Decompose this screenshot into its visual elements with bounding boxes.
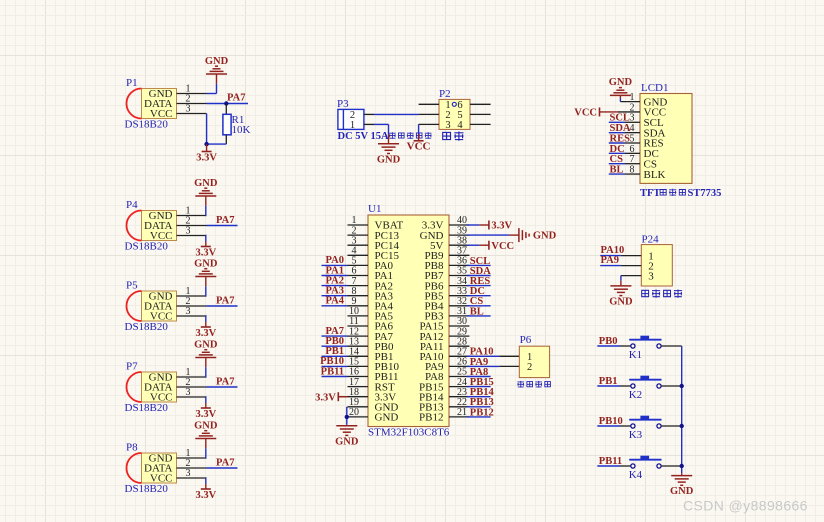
svg-text:K4: K4 [629,469,643,481]
wire+net label PB12 (U1 pin 21) [467,407,494,418]
wire+net label SCL (U1 pin 36) [467,256,491,267]
svg-text:10K: 10K [232,124,251,136]
pushbutton K1 net PB0 [597,336,681,361]
svg-text:GND: GND [609,297,633,308]
svg-text:P24: P24 [642,234,660,246]
wire+net label PB10 (U1 pin 15) [320,356,347,367]
svg-text:VCC: VCC [574,108,597,119]
svg-text:K3: K3 [629,429,643,441]
svg-text:GND: GND [194,258,218,269]
wire P3 pin2 to P2 pin2 [364,113,419,115]
svg-text:K2: K2 [629,389,642,401]
wire net PA9 (P24 pin 2) [600,255,641,266]
wire net PA10 U1 pin 27 to P6 [467,347,520,358]
svg-text:VCC: VCC [407,141,431,153]
svg-text:BL: BL [470,306,484,317]
pushbutton K4 net PB11 [597,456,681,481]
wire+net label SDA (U1 pin 35) [467,266,491,277]
power VCC (P2 pin 3) [407,124,431,152]
IC U1 STM32F103C8T6 [348,203,470,438]
ground GND (P7 pin 1) [194,339,218,377]
svg-text:PA7: PA7 [216,457,234,468]
svg-text:DS18B20: DS18B20 [125,321,169,333]
svg-text:P2: P2 [439,88,451,100]
svg-text:3: 3 [186,468,191,479]
svg-text:GND: GND [609,77,633,88]
svg-text:SCL: SCL [610,113,630,124]
junction PA7/R1 [224,101,228,105]
wire VCC pin3 to 3.3V node (P1) [207,114,227,145]
wire DATA net PA7 (P4) [207,225,238,227]
wire+net label RES (U1 pin 34) [467,276,491,287]
svg-text:3.3V: 3.3V [195,328,216,339]
wire net PA9 U1 pin 26 to P6 [467,357,520,368]
ground GND (button bus) [681,471,683,473]
svg-text:U1: U1 [368,203,381,215]
power 3.3V (P5 pin 3) [195,316,216,339]
svg-text:PB12: PB12 [419,412,443,424]
ground GND (P3 pin 1) [388,124,390,134]
wire+net label SDA (LCD1 pin 4) [609,123,640,134]
power 3.3V (U1 pin 18) [315,392,347,403]
svg-text:3.3V: 3.3V [491,221,512,232]
ground GND (U1 pin 39) [467,228,557,242]
wire+net label BL (U1 pin 31) [467,306,491,317]
switch P2 (6-pin) [439,88,470,131]
wire+net label RES (LCD1 pin 5) [609,133,640,144]
connector P3 DC power input [337,98,364,131]
svg-text:4: 4 [457,120,463,131]
connector P5 DS18B20 probe [125,280,207,334]
svg-text:3.3V: 3.3V [195,247,216,258]
svg-text:PB10: PB10 [599,416,623,427]
wire+net label PA2 (U1 pin 7) [322,275,348,286]
wire+net label DC (LCD1 pin 6) [609,144,640,155]
wire+net label CS (LCD1 pin 7) [609,154,640,165]
label serial interface (Chinese) [642,290,649,296]
power 3.3V (P4 pin 3) [195,236,216,259]
junction button bus y=466 [680,464,684,468]
svg-text:GND: GND [533,231,557,242]
svg-text:CS: CS [610,154,624,165]
svg-text:PA7: PA7 [216,376,234,387]
connector P1 DS18B20 probe [125,77,207,131]
svg-text:TFT: TFT [640,188,660,199]
svg-text:1: 1 [350,120,355,131]
wire DATA net PA7 (P8) [207,467,238,469]
wire GND pins 19-20 (U1) [346,407,348,424]
svg-text:PB12: PB12 [470,407,494,418]
wire P3 pin1 to ground [364,123,389,125]
wire+net label CS (U1 pin 32) [467,296,491,307]
connector P24 serial interface [641,234,672,287]
pushbutton K2 net PB1 [597,376,681,401]
wire+net label SCL (LCD1 pin 3) [609,113,640,124]
svg-text:P8: P8 [126,442,138,454]
connector P6 serial debug [519,334,549,378]
wire DATA net PA7 (P5) [207,305,238,307]
svg-text:3.3V: 3.3V [195,409,216,420]
svg-text:PA7: PA7 [216,215,234,226]
svg-text:GND: GND [375,412,399,424]
label TFT display ST7735 (Chinese) [640,188,721,199]
label serial debug (Chinese) [517,381,524,388]
svg-text:PB11: PB11 [321,366,344,377]
wire+net label PB11 (U1 pin 16) [321,366,348,377]
svg-text:3: 3 [186,104,191,115]
svg-text:LCD1: LCD1 [641,82,669,94]
svg-text:2: 2 [527,362,532,373]
svg-text:3: 3 [186,387,191,398]
svg-text:PB11: PB11 [599,456,622,467]
pushbutton K3 net PB10 [597,416,681,441]
svg-text:3.3V: 3.3V [195,490,216,501]
label switch (Chinese) [443,132,451,139]
connector P4 DS18B20 probe [125,199,207,253]
svg-text:P6: P6 [520,334,532,346]
svg-text:GND: GND [194,178,218,189]
power 3.3V (P7 pin 3) [195,397,216,420]
svg-text:BL: BL [610,164,624,175]
ground GND (LCD1 pin 1) [609,77,640,101]
svg-text:3.3V: 3.3V [196,152,217,163]
svg-text:P3: P3 [337,98,349,110]
svg-text:DC 5V 15A: DC 5V 15A [338,131,390,142]
svg-text:PA7: PA7 [227,93,245,104]
svg-text:ST7735: ST7735 [688,188,722,199]
connector P7 DS18B20 probe [125,361,207,415]
wire+net label DC (U1 pin 33) [467,286,491,297]
svg-text:VCC: VCC [491,241,514,252]
svg-text:GND: GND [205,56,229,67]
junction GND (U1 pin 20) [345,415,349,419]
display LCD1 TFT ST7735 [630,82,693,183]
svg-text:GND: GND [194,420,218,431]
svg-text:3: 3 [648,270,654,282]
ground GND (P5 pin 1) [194,258,218,296]
wire+net label PA0 (U1 pin 5) [322,255,348,266]
svg-text:DS18B20: DS18B20 [125,241,169,253]
svg-text:PA4: PA4 [326,296,345,307]
wire net PA10 (P24 pin 1) [600,245,641,256]
junction 3.3V node (P1) [204,142,208,146]
pin stubs P2 [419,104,491,124]
wire+net label PA1 (U1 pin 6) [322,265,348,276]
wire ground bus (buttons) [681,346,683,471]
svg-text:STM32F103C8T6: STM32F103C8T6 [368,426,450,438]
svg-text:PB1: PB1 [599,376,618,387]
ground GND (U1) [346,423,348,426]
ground GND (P1 pin 1) [205,56,229,94]
svg-text:PB0: PB0 [599,336,618,347]
svg-text:PA9: PA9 [601,255,619,266]
wire+net label PB0 (U1 pin 13) [322,336,348,347]
svg-text:3: 3 [186,226,191,237]
svg-text:SDA: SDA [610,123,631,134]
wire+net label PB13 (U1 pin 22) [467,397,494,408]
svg-text:GND: GND [670,486,694,497]
power 3.3V (U1 pin 40) [467,221,513,232]
junction button bus y=386 [680,384,684,388]
connector P8 DS18B20 probe [125,442,207,496]
svg-text:P5: P5 [126,280,138,292]
svg-text:CSDN @y8898666: CSDN @y8898666 [683,498,808,514]
svg-text:3.3V: 3.3V [315,392,336,403]
wire+net label BL (LCD1 pin 8) [609,164,640,175]
svg-text:P4: P4 [126,199,138,211]
svg-text:3: 3 [445,120,450,131]
svg-text:DS18B20: DS18B20 [125,483,169,495]
wire+net label PB15 (U1 pin 24) [467,377,494,388]
power VCC (U1 pin 38) [467,241,514,252]
wire+net label PA3 (U1 pin 8) [322,286,348,297]
power 3.3V (P1) [206,144,208,151]
svg-text:RES: RES [610,133,631,144]
svg-text:P7: P7 [126,361,138,373]
ground GND (P24 pin 3) [609,276,641,308]
ground GND (P8 pin 1) [194,420,218,458]
svg-text:3: 3 [186,306,191,317]
wire DATA net PA7 (P7) [207,386,238,388]
wire+net label PB14 (U1 pin 23) [467,387,495,398]
resistor R1 10K [223,104,251,145]
junction button bus y=426 [680,424,684,428]
wire+net label PA4 (U1 pin 9) [322,296,348,307]
wire+net label PA7 (U1 pin 12) [322,326,348,337]
svg-text:DS18B20: DS18B20 [125,119,169,131]
svg-text:PA7: PA7 [216,295,234,306]
power 3.3V (P8 pin 3) [195,478,216,501]
svg-text:GND: GND [335,436,359,447]
svg-text:GND: GND [194,339,218,350]
wire+net label PA8 (U1 pin 25) [467,367,491,378]
svg-text:P1: P1 [126,77,138,89]
wire DATA net PA7 (P1) [207,103,249,105]
label DC 5V 15A power input (Chinese) [338,131,432,142]
power VCC (LCD1 pin 2) [574,107,640,118]
svg-text:DS18B20: DS18B20 [125,402,169,414]
svg-text:GND: GND [377,154,401,165]
wire+net label PB1 (U1 pin 14) [322,346,348,357]
svg-text:DC: DC [610,144,625,155]
svg-text:K1: K1 [629,349,642,361]
ground GND (P4 pin 1) [194,178,218,216]
svg-text:BLK: BLK [644,169,666,181]
